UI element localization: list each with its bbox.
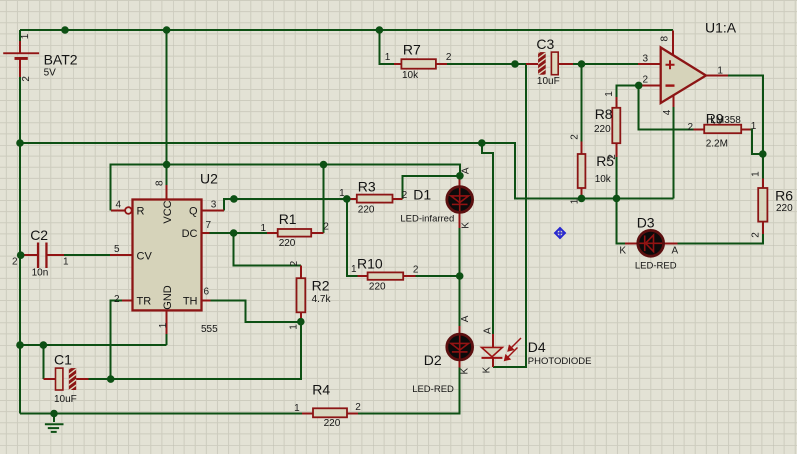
svg-text:R9: R9 — [706, 111, 724, 127]
svg-text:2: 2 — [355, 402, 361, 413]
svg-text:PHOTODIODE: PHOTODIODE — [528, 356, 592, 367]
svg-text:C3: C3 — [536, 36, 554, 52]
svg-text:220: 220 — [369, 281, 386, 292]
svg-text:2: 2 — [12, 256, 18, 267]
svg-text:R6: R6 — [775, 187, 793, 203]
svg-text:1: 1 — [63, 256, 69, 267]
svg-text:1: 1 — [261, 223, 267, 234]
svg-text:R3: R3 — [358, 179, 376, 195]
svg-text:U1:A: U1:A — [705, 20, 737, 36]
svg-text:LED-infarred: LED-infarred — [400, 213, 454, 224]
svg-text:10n: 10n — [32, 268, 49, 279]
svg-text:2: 2 — [21, 76, 32, 82]
svg-text:1: 1 — [604, 91, 615, 97]
svg-text:C2: C2 — [30, 227, 48, 243]
svg-text:4: 4 — [116, 200, 122, 211]
svg-text:Q: Q — [189, 206, 198, 218]
svg-text:LED-RED: LED-RED — [635, 260, 677, 271]
svg-text:K: K — [460, 222, 471, 229]
svg-text:TR: TR — [137, 295, 152, 307]
svg-text:6: 6 — [204, 287, 210, 298]
svg-text:D2: D2 — [424, 352, 442, 368]
svg-text:2.2M: 2.2M — [706, 138, 728, 149]
svg-text:2: 2 — [688, 122, 694, 133]
svg-text:R2: R2 — [312, 277, 330, 293]
svg-text:A: A — [672, 245, 679, 256]
svg-text:R8: R8 — [595, 106, 613, 122]
svg-text:2: 2 — [114, 294, 120, 305]
svg-text:TH: TH — [183, 296, 198, 308]
svg-text:3: 3 — [211, 200, 217, 211]
svg-text:10uF: 10uF — [537, 76, 560, 87]
svg-text:1: 1 — [351, 264, 357, 275]
svg-text:220: 220 — [776, 203, 793, 214]
svg-text:D1: D1 — [413, 187, 431, 203]
svg-text:1: 1 — [751, 121, 757, 132]
svg-text:5V: 5V — [44, 68, 57, 79]
svg-text:8: 8 — [660, 35, 671, 41]
svg-text:2: 2 — [570, 134, 581, 140]
svg-text:1: 1 — [289, 324, 300, 330]
svg-text:DC: DC — [182, 228, 198, 240]
svg-text:220: 220 — [324, 418, 341, 429]
svg-text:7: 7 — [206, 220, 212, 231]
svg-text:5: 5 — [114, 244, 120, 255]
svg-text:R10: R10 — [357, 256, 383, 272]
svg-text:220: 220 — [358, 205, 375, 216]
svg-text:R4: R4 — [312, 382, 330, 398]
svg-text:2: 2 — [323, 222, 329, 233]
svg-text:A: A — [460, 167, 471, 174]
svg-text:A: A — [460, 315, 471, 322]
svg-text:K: K — [481, 366, 492, 373]
svg-text:1: 1 — [294, 403, 300, 414]
svg-text:D3: D3 — [637, 215, 655, 231]
svg-text:10k: 10k — [402, 70, 419, 81]
svg-text:LED-RED: LED-RED — [412, 384, 454, 395]
svg-text:1: 1 — [717, 66, 723, 77]
svg-text:U2: U2 — [200, 171, 218, 187]
svg-text:220: 220 — [594, 124, 611, 135]
svg-text:K: K — [459, 368, 470, 375]
svg-text:3: 3 — [643, 53, 649, 64]
svg-text:1: 1 — [385, 52, 391, 63]
svg-text:4.7k: 4.7k — [312, 294, 332, 305]
svg-text:R1: R1 — [279, 211, 297, 227]
svg-text:8: 8 — [155, 180, 166, 186]
svg-text:R: R — [137, 206, 145, 218]
svg-text:2: 2 — [402, 190, 408, 201]
svg-text:CV: CV — [137, 250, 153, 262]
svg-text:K: K — [619, 245, 626, 256]
svg-text:2: 2 — [413, 265, 419, 276]
svg-text:D4: D4 — [528, 339, 546, 355]
svg-text:10k: 10k — [595, 174, 612, 185]
svg-text:2: 2 — [289, 260, 300, 266]
svg-text:GND: GND — [162, 285, 174, 310]
svg-text:4: 4 — [662, 109, 673, 115]
svg-text:C1: C1 — [54, 351, 72, 367]
svg-text:A: A — [483, 327, 494, 334]
svg-text:BAT2: BAT2 — [44, 51, 78, 67]
svg-text:1: 1 — [570, 198, 581, 204]
svg-text:1: 1 — [339, 188, 345, 199]
svg-text:10uF: 10uF — [54, 394, 77, 405]
svg-text:555: 555 — [201, 324, 218, 335]
svg-text:2: 2 — [607, 154, 618, 160]
svg-text:R7: R7 — [403, 42, 421, 58]
svg-text:2: 2 — [446, 52, 452, 63]
svg-text:2: 2 — [750, 232, 761, 238]
svg-text:1: 1 — [158, 322, 169, 328]
svg-text:1: 1 — [751, 171, 762, 177]
svg-text:220: 220 — [279, 238, 296, 249]
svg-text:VCC: VCC — [162, 200, 174, 223]
svg-text:2: 2 — [643, 74, 649, 85]
svg-text:1: 1 — [20, 33, 31, 39]
